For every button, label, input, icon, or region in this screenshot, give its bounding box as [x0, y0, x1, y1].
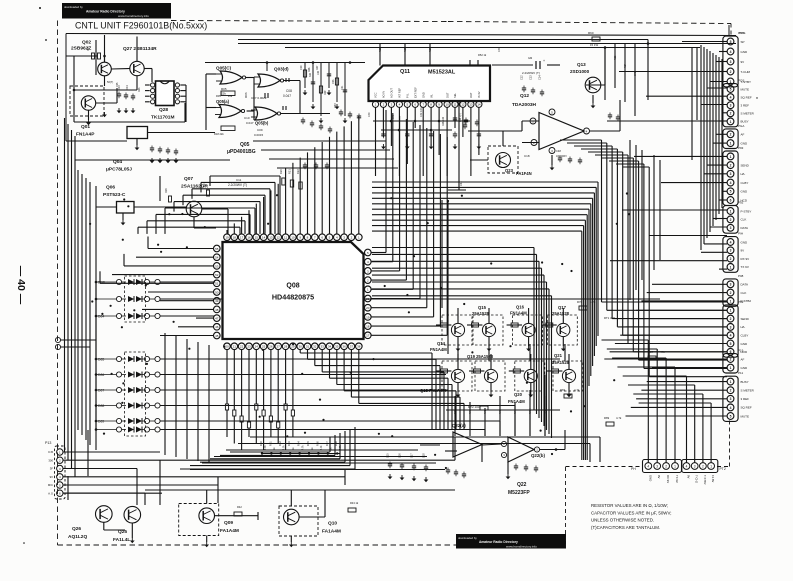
svg-text:RX 9V: RX 9V [666, 475, 670, 483]
svg-text:C16: C16 [399, 453, 402, 458]
svg-text:13: 13 [469, 103, 473, 107]
svg-text:R43 1k: R43 1k [350, 501, 359, 505]
svg-text:4: 4 [730, 181, 732, 185]
svg-text:Q16: Q16 [516, 305, 525, 310]
svg-text:Q28: Q28 [159, 107, 168, 113]
svg-text:45: 45 [215, 334, 219, 338]
svg-text:Q21: Q21 [554, 353, 563, 358]
svg-text:3F: 3F [50, 467, 54, 471]
svg-text:R33: R33 [287, 441, 291, 446]
svg-text:CLK: CLK [741, 218, 747, 222]
svg-text:DATA: DATA [741, 226, 749, 230]
svg-text:2: 2 [702, 464, 704, 468]
svg-text:R34: R34 [297, 441, 301, 446]
svg-text:3: 3 [730, 397, 732, 401]
svg-text:C14: C14 [539, 75, 542, 80]
svg-text:1: 1 [730, 380, 732, 384]
svg-text:GND: GND [741, 50, 749, 54]
svg-text:EXT REF: EXT REF [413, 87, 417, 98]
svg-text:38: 38 [357, 345, 361, 349]
svg-text:DATA: DATA [741, 283, 749, 287]
svg-text:R16: R16 [165, 188, 168, 193]
svg-text:3 REF: 3 REF [741, 104, 750, 108]
svg-text:27: 27 [277, 345, 281, 349]
svg-text:28: 28 [284, 345, 288, 349]
svg-text:2: 2 [730, 389, 732, 393]
svg-text:1: 1 [730, 142, 732, 146]
svg-text:25A1528: 25A1528 [552, 360, 570, 365]
svg-text:SEND: SEND [741, 163, 750, 167]
svg-text:H/L: H/L [741, 172, 746, 176]
svg-text:R20: R20 [279, 169, 283, 174]
svg-text:16: 16 [247, 236, 251, 240]
svg-text:36: 36 [342, 345, 346, 349]
svg-text:5: 5 [730, 342, 732, 346]
svg-text:D85: D85 [98, 358, 104, 362]
svg-text:53: 53 [215, 264, 219, 268]
svg-text:14: 14 [262, 236, 266, 240]
svg-text:CLK: CLK [741, 291, 747, 295]
svg-text:Q07: Q07 [184, 176, 193, 182]
svg-text:P99: P99 [738, 300, 744, 304]
svg-text:2: 2 [730, 357, 732, 361]
svg-text:D87: D87 [98, 389, 104, 393]
svg-text:19: 19 [225, 236, 229, 240]
svg-text:55: 55 [215, 247, 219, 251]
svg-text:22k: 22k [221, 92, 226, 96]
svg-text:5: 5 [730, 190, 732, 194]
svg-text:Q25: Q25 [118, 529, 127, 535]
svg-text:BUSY: BUSY [741, 380, 749, 384]
svg-text:2: 2 [730, 164, 732, 168]
svg-text:Q18 FN1A4M: Q18 FN1A4M [420, 388, 446, 393]
svg-text:GND: GND [741, 240, 749, 244]
svg-text:2SD1000: 2SD1000 [570, 69, 590, 74]
svg-text:FA1L4L: FA1L4L [113, 537, 130, 543]
svg-text:20: 20 [225, 345, 229, 349]
svg-text:P IL: P IL [406, 93, 410, 98]
svg-text:OUT: OUT [445, 92, 449, 98]
svg-text:MIC: MIC [48, 483, 53, 487]
svg-text:R46: R46 [544, 409, 547, 414]
svg-text:4: 4 [730, 50, 732, 54]
svg-text:FN1A4P: FN1A4P [76, 132, 95, 138]
svg-text:22k: 22k [228, 94, 233, 98]
svg-text:3: 3 [730, 283, 732, 287]
svg-text:4: 4 [730, 96, 732, 100]
svg-text:3 REF: 3 REF [741, 397, 750, 401]
svg-text:0.047: 0.047 [283, 94, 291, 98]
svg-text:R38: R38 [334, 441, 338, 446]
svg-text:1: 1 [730, 265, 732, 269]
svg-text:Q22(a): Q22(a) [452, 423, 466, 428]
svg-text:SP: SP [741, 40, 745, 44]
svg-text:C48: C48 [556, 149, 561, 153]
svg-text:3: 3 [730, 325, 732, 329]
svg-text:R45: R45 [529, 409, 532, 414]
svg-text:OUT: OUT [469, 92, 473, 98]
svg-text:VIL: VIL [429, 94, 433, 98]
svg-text:PGA: PGA [738, 124, 744, 128]
svg-text:Q10: Q10 [328, 521, 337, 527]
svg-text:Q09: Q09 [224, 520, 233, 526]
svg-text:4.7k: 4.7k [301, 445, 304, 450]
svg-text:32: 32 [313, 345, 317, 349]
svg-text:AO IN: AO IN [382, 91, 386, 98]
svg-text:C31: C31 [341, 85, 344, 90]
svg-text:μPD4001BG: μPD4001BG [227, 149, 256, 155]
svg-text:(T)CAPACITORS ARE TANTALUM.: (T)CAPACITORS ARE TANTALUM. [591, 525, 660, 530]
svg-text:VCC: VCC [374, 92, 378, 98]
svg-text:5: 5 [730, 414, 732, 418]
svg-text:GND: GND [741, 366, 749, 370]
svg-text:Q23: Q23 [505, 168, 514, 173]
svg-text:R21: R21 [288, 169, 292, 174]
svg-text:3: 3 [730, 226, 732, 230]
svg-text:R52 1k: R52 1k [478, 53, 487, 57]
svg-text:46: 46 [215, 325, 219, 329]
svg-text:C15: C15 [387, 453, 390, 458]
svg-text:R22: R22 [296, 169, 300, 174]
svg-text:R05: R05 [221, 87, 227, 91]
svg-text:330: 330 [309, 72, 312, 77]
svg-text:Q19 25A1528: Q19 25A1528 [467, 354, 494, 359]
svg-text:C40: C40 [368, 112, 371, 117]
svg-text:9V: 9V [50, 475, 54, 479]
svg-text:1: 1 [730, 299, 732, 303]
svg-text:FA1A4M: FA1A4M [322, 529, 341, 535]
svg-text:R31: R31 [268, 441, 272, 446]
svg-text:4.7k: 4.7k [264, 445, 267, 450]
svg-text:T-STB2: T-STB2 [703, 475, 707, 485]
svg-text:C09: C09 [257, 128, 263, 132]
svg-text:Q15: Q15 [478, 305, 487, 310]
svg-text:30: 30 [299, 345, 303, 349]
svg-text:IN 3V: IN 3V [477, 91, 481, 98]
svg-text:www.hamdirectory.info: www.hamdirectory.info [506, 544, 537, 548]
svg-text:5: 5 [730, 40, 732, 44]
svg-text:RX 9V: RX 9V [741, 257, 750, 261]
svg-text:AF: AF [741, 357, 745, 361]
svg-text:SEL: SEL [453, 93, 457, 98]
svg-text:3: 3 [730, 104, 732, 108]
svg-text:4.7k: 4.7k [339, 445, 342, 450]
svg-text:1: 1 [730, 120, 732, 124]
svg-text:Q04: Q04 [113, 159, 122, 165]
svg-text:C13: C13 [530, 75, 533, 80]
svg-text:RESISTOR VALUES ARE IN Ω, 1/10: RESISTOR VALUES ARE IN Ω, 1/10W; [591, 503, 668, 508]
svg-text:C44 1(T): C44 1(T) [460, 113, 462, 122]
svg-text:D89: D89 [98, 420, 104, 424]
svg-text:S METER: S METER [741, 112, 755, 116]
svg-text:P08: P08 [738, 274, 744, 278]
svg-text:4: 4 [730, 240, 732, 244]
svg-text:R35: R35 [306, 441, 310, 446]
svg-text:R03: R03 [138, 87, 141, 92]
svg-text:56(T): 56(T) [107, 80, 113, 84]
svg-text:3: 3 [730, 60, 732, 64]
svg-text:12: 12 [461, 103, 465, 107]
svg-text:P93: P93 [738, 146, 744, 150]
svg-text:2SB962Z: 2SB962Z [71, 46, 91, 52]
svg-text:2: 2 [730, 291, 732, 295]
svg-text:21: 21 [366, 297, 370, 301]
svg-text:MUTE: MUTE [741, 87, 750, 91]
svg-text:9V: 9V [741, 60, 745, 64]
svg-text:3: 3 [694, 464, 696, 468]
svg-text:R55: R55 [614, 55, 617, 60]
svg-text:CLBY: CLBY [741, 181, 749, 185]
svg-text:C41: C41 [392, 114, 395, 119]
svg-text:P19: P19 [738, 349, 744, 353]
svg-text:37: 37 [350, 345, 354, 349]
svg-text:Q17: Q17 [558, 305, 567, 310]
svg-text:54: 54 [215, 256, 219, 260]
svg-text:1: 1 [730, 155, 732, 159]
svg-text:11: 11 [284, 236, 287, 240]
svg-text:31: 31 [306, 345, 310, 349]
svg-text:AO OUT: AO OUT [390, 88, 394, 98]
svg-text:R06: R06 [244, 92, 248, 98]
svg-text:24: 24 [255, 345, 259, 349]
svg-text:10: 10 [291, 236, 295, 240]
svg-text:R07: R07 [316, 65, 319, 70]
svg-text:C03: C03 [332, 79, 335, 84]
svg-text:C20: C20 [300, 65, 303, 70]
svg-text:C03: C03 [118, 85, 121, 90]
svg-text:TX 9V: TX 9V [675, 475, 679, 483]
svg-text:R08: R08 [308, 67, 311, 72]
svg-text:R30: R30 [259, 441, 263, 446]
svg-text:17: 17 [366, 334, 370, 338]
svg-text:R58: R58 [379, 47, 382, 52]
svg-text:10: 10 [445, 103, 449, 107]
svg-text:2: 2 [730, 257, 732, 261]
svg-text:9V: 9V [657, 475, 661, 479]
svg-text:S METER: S METER [741, 389, 755, 393]
svg-text:R42: R42 [484, 409, 487, 414]
svg-text:48: 48 [215, 308, 219, 312]
svg-text:15: 15 [255, 236, 259, 240]
svg-text:— 40 —: — 40 — [15, 266, 27, 305]
svg-text:PST523-C: PST523-C [103, 192, 126, 198]
svg-text:300: 300 [48, 458, 53, 462]
svg-text:INT REF: INT REF [398, 87, 402, 97]
svg-text:TX 9V: TX 9V [741, 265, 749, 269]
svg-text:Q12: Q12 [520, 93, 529, 99]
svg-text:4.7k: 4.7k [320, 445, 323, 450]
svg-text:FN1A4M: FN1A4M [510, 311, 527, 316]
svg-text:Q27 2SB1134R: Q27 2SB1134R [123, 46, 157, 52]
svg-text:R54: R54 [624, 63, 627, 68]
svg-text:GND: GND [648, 475, 652, 481]
svg-text:μPC78L05J: μPC78L05J [106, 167, 132, 173]
svg-text:21: 21 [233, 345, 237, 349]
svg-text:GND: GND [741, 141, 749, 145]
svg-text:51: 51 [215, 282, 219, 286]
svg-text:2: 2 [730, 133, 732, 137]
svg-text:9V: 9V [687, 475, 691, 479]
svg-text:C47: C47 [498, 47, 501, 52]
svg-text:P11: P11 [738, 371, 743, 375]
svg-text:MUTE: MUTE [741, 414, 750, 418]
svg-text:35: 35 [335, 345, 339, 349]
svg-text:2.2/20WV (T): 2.2/20WV (T) [522, 71, 540, 75]
svg-text:PH: PH [631, 467, 636, 471]
svg-text:R70: R70 [577, 300, 583, 304]
svg-text:C18: C18 [524, 154, 530, 158]
svg-text:DN8: DN8 [98, 281, 105, 285]
svg-text:AF: AF [741, 133, 745, 137]
svg-text:T-CHM: T-CHM [741, 70, 751, 74]
svg-text:5: 5 [730, 87, 732, 91]
svg-text:D84: D84 [98, 315, 104, 319]
svg-text:C04: C04 [126, 85, 129, 90]
svg-text:13: 13 [269, 236, 273, 240]
svg-text:A.G: A.G [48, 491, 53, 495]
svg-text:CLBY: CLBY [741, 334, 749, 338]
svg-text:GND: GND [741, 342, 749, 346]
svg-text:H/L: H/L [741, 325, 746, 329]
svg-text:Q13: Q13 [577, 62, 586, 67]
svg-text:P13: P13 [45, 441, 51, 445]
svg-text:CNTL UNIT F2960101B(No.5xxx): CNTL UNIT F2960101B(No.5xxx) [75, 20, 207, 30]
svg-text:47: 47 [215, 317, 219, 321]
svg-text:R44: R44 [514, 409, 517, 414]
svg-text:FA1F4N: FA1F4N [516, 171, 532, 176]
svg-text:1: 1 [730, 209, 732, 213]
svg-text:SEND: SEND [741, 317, 750, 321]
svg-text:UNLESS OTHERWISE NOTED.: UNLESS OTHERWISE NOTED. [591, 518, 654, 523]
svg-text:4.7k: 4.7k [616, 416, 622, 420]
svg-text:PIH: PIH [738, 232, 743, 236]
svg-text:GND: GND [741, 190, 749, 194]
svg-text:R89: R89 [604, 416, 610, 420]
svg-text:Q01: Q01 [81, 124, 90, 130]
svg-text:25: 25 [262, 345, 266, 349]
svg-text:FA1A4M: FA1A4M [220, 528, 239, 534]
svg-text:R43: R43 [499, 409, 502, 414]
svg-text:15 1W: 15 1W [590, 43, 598, 47]
svg-text:P92: P92 [738, 201, 744, 205]
svg-text:R40: R40 [454, 409, 457, 414]
svg-text:www.hamdirectory.info: www.hamdirectory.info [118, 14, 149, 18]
svg-text:M51523AL: M51523AL [428, 70, 456, 76]
svg-text:C18: C18 [423, 453, 426, 458]
svg-text:1: 1 [674, 464, 676, 468]
svg-text:Q05(b): Q05(b) [255, 121, 269, 126]
svg-text:C08: C08 [286, 89, 292, 93]
svg-text:C11: C11 [236, 178, 242, 182]
svg-text:FN1A4M: FN1A4M [430, 347, 447, 352]
svg-text:20: 20 [366, 306, 370, 310]
svg-text:9V: 9V [741, 249, 745, 253]
svg-text:18: 18 [233, 236, 237, 240]
svg-text:4: 4 [647, 464, 649, 468]
svg-text:R57: R57 [429, 47, 432, 52]
svg-text:R59: R59 [404, 47, 407, 52]
svg-text:Q20: Q20 [514, 392, 523, 397]
svg-text:2: 2 [730, 112, 732, 116]
svg-text:25A1528: 25A1528 [552, 311, 570, 316]
svg-text:+: + [543, 59, 545, 63]
svg-text:TK11701M: TK11701M [151, 115, 174, 121]
svg-text:R32: R32 [278, 441, 282, 446]
svg-text:18: 18 [366, 325, 370, 329]
svg-text:14: 14 [477, 103, 481, 107]
svg-text:11: 11 [453, 103, 456, 107]
svg-text:R05: R05 [216, 94, 221, 98]
svg-text:POS: POS [739, 31, 745, 35]
svg-text:Q05(a): Q05(a) [216, 99, 230, 104]
svg-text:22: 22 [240, 345, 244, 349]
svg-text:100: 100 [317, 70, 320, 75]
svg-text:GND: GND [421, 92, 425, 98]
svg-text:AQ1L2Q: AQ1L2Q [68, 534, 87, 540]
svg-text:2SA1162GR: 2SA1162GR [181, 184, 208, 190]
svg-text:2: 2 [730, 218, 732, 222]
svg-text:4: 4 [730, 406, 732, 410]
svg-text:0.047: 0.047 [246, 121, 254, 125]
svg-text:C10: C10 [244, 116, 250, 120]
svg-text:TDA2003H: TDA2003H [512, 102, 537, 108]
svg-text:Amateur Radio Directory: Amateur Radio Directory [86, 10, 125, 14]
svg-text:50: 50 [215, 290, 219, 294]
svg-text:POS: POS [738, 79, 744, 83]
svg-text:C42 0.01: C42 0.01 [420, 107, 423, 117]
svg-text:25A1528: 25A1528 [472, 311, 490, 316]
svg-text:R41: R41 [469, 409, 472, 414]
svg-text:C44: C44 [459, 181, 463, 186]
svg-text:C12: C12 [521, 75, 524, 80]
svg-text:T-CH2: T-CH2 [695, 475, 699, 484]
svg-text:R37: R37 [325, 441, 329, 446]
svg-text:Q08: Q08 [286, 283, 299, 290]
svg-text:R28 100: R28 100 [442, 116, 445, 126]
svg-text:D86: D86 [98, 373, 104, 377]
svg-text:4.7k: 4.7k [283, 445, 286, 450]
svg-text:6: 6 [730, 198, 732, 202]
svg-text:PT2: PT2 [720, 467, 726, 471]
svg-text:2: 2 [730, 70, 732, 74]
svg-text:1: 1 [730, 309, 732, 313]
svg-text:R42: R42 [237, 505, 242, 509]
svg-text:Q11: Q11 [400, 69, 410, 75]
svg-text:downloaded by: downloaded by [458, 536, 477, 540]
svg-text:3: 3 [730, 249, 732, 253]
svg-text:3: 3 [656, 464, 658, 468]
svg-text:12: 12 [277, 236, 281, 240]
svg-text:17: 17 [240, 236, 244, 240]
svg-text:SQ REF: SQ REF [741, 406, 752, 410]
svg-text:Q03(d): Q03(d) [274, 67, 289, 72]
svg-text:RT1 4.7k: RT1 4.7k [604, 316, 616, 320]
svg-text:13.8V: 13.8V [711, 475, 715, 482]
svg-text:2.2/20WV (T): 2.2/20WV (T) [228, 183, 247, 187]
svg-text:2: 2 [730, 317, 732, 321]
svg-text:P-STBY: P-STBY [741, 209, 752, 213]
svg-text:3: 3 [730, 172, 732, 176]
svg-text:C45: C45 [634, 71, 637, 76]
svg-text:downloaded by: downloaded by [64, 5, 83, 9]
svg-text:4: 4 [686, 464, 688, 468]
svg-text:19: 19 [366, 315, 370, 319]
svg-text:Q22: Q22 [517, 482, 527, 488]
svg-text:R36: R36 [315, 441, 319, 446]
svg-text:Q02: Q02 [82, 40, 91, 46]
svg-text:R09: R09 [324, 90, 327, 95]
svg-text:FN1A4M: FN1A4M [508, 399, 525, 404]
